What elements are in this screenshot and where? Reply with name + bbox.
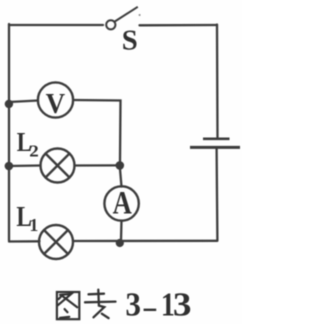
wire: ammeter bottom to bottom node (120, 221, 123, 241)
node: ammeter to bottom wire (116, 239, 124, 247)
svg-text:3: 3 (125, 286, 141, 323)
node: junction of V branch, L2 branch and ammeter (116, 161, 125, 170)
wire: voltmeter branch left (9, 101, 38, 103)
lamp L1 (39, 225, 73, 259)
caption character 专 (85, 290, 116, 318)
svg-text:V: V (46, 89, 66, 120)
wire: right border below battery (215, 148, 218, 240)
wire: bottom left segment to lamp L1 (9, 240, 40, 242)
node: lamp L2 tap on left wire (5, 162, 14, 171)
svg-text:S: S (122, 25, 138, 57)
wire: top-left segment to switch (9, 24, 103, 26)
voltmeter U1 (38, 82, 73, 117)
svg-text:–: – (143, 288, 157, 324)
wire: bottom segment lamp L1 to right corner (73, 240, 217, 242)
lamp L2 (41, 149, 75, 183)
wire: left border vertical (8, 24, 10, 241)
wire: lamp L2 branch right to node (75, 164, 117, 166)
svg-text:2: 2 (29, 141, 39, 160)
wire: switch right to top-right corner (140, 24, 218, 27)
caption character 图 (57, 292, 79, 319)
switch S (106, 7, 138, 30)
switch S blade tip speck (139, 14, 141, 16)
ammeter A1 (104, 186, 138, 220)
battery (190, 139, 240, 148)
svg-text:1: 1 (29, 215, 38, 235)
svg-text:3: 3 (173, 286, 192, 323)
wire: lamp L2 branch left (9, 164, 41, 167)
wire: voltmeter branch right with corner down (73, 100, 120, 162)
wire: right border above battery (216, 25, 219, 138)
wire: node to ammeter top (120, 169, 122, 187)
svg-text:A: A (113, 186, 132, 222)
node: voltmeter tap on left wire (5, 100, 13, 108)
